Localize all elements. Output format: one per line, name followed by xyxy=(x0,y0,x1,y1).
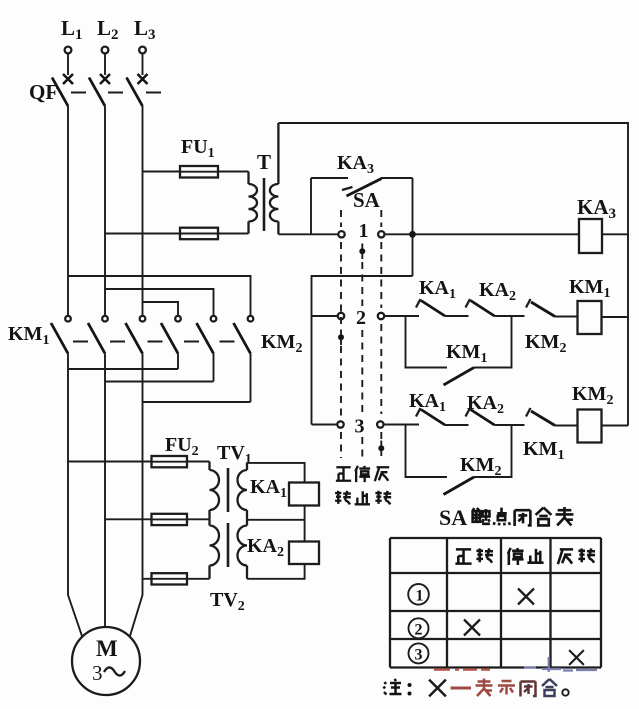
coil KA3 xyxy=(579,219,628,253)
wire phase L1 vertical xyxy=(67,106,69,316)
table row label circled 2 xyxy=(409,618,429,638)
transformer T primary xyxy=(249,172,258,234)
transformer TV1 secondary xyxy=(238,463,248,520)
contact KM2 selfhold branch xyxy=(406,425,512,495)
table row label circled 1 xyxy=(408,584,429,605)
annotation blue dashes xyxy=(524,657,597,672)
svg-text:2: 2 xyxy=(415,622,423,639)
svg-text:1: 1 xyxy=(359,220,369,242)
coil KA2 xyxy=(289,542,319,565)
wire motor feed W xyxy=(130,402,143,638)
wire top rail xyxy=(278,123,628,426)
wire motor feed U xyxy=(68,369,83,638)
wire KA1 loop top xyxy=(247,463,305,483)
contact KM2 interlock row2 xyxy=(526,299,578,317)
breaker QF xyxy=(29,78,161,107)
node L2 xyxy=(97,16,119,84)
wire crossover L3 to KM2 xyxy=(143,302,179,316)
fuse FU1 lower xyxy=(105,228,249,240)
wire KA1 loop bottom xyxy=(247,506,305,542)
wire phase L2 vertical xyxy=(104,106,106,316)
fuse FU2 c xyxy=(143,573,210,584)
wire SA feed rail xyxy=(312,276,413,425)
table header fan-zhuan reverse xyxy=(558,548,595,564)
table mark X reverse row3 xyxy=(569,650,584,665)
fuse FU2 b xyxy=(105,514,210,525)
switch SA dashed line left xyxy=(340,210,342,458)
switch SA position dot 3 xyxy=(378,441,384,457)
wire row1 xyxy=(278,233,338,235)
transformer TV1 core xyxy=(227,468,230,512)
table mark X stop row1 xyxy=(518,589,534,605)
wire KM outputs merge U xyxy=(68,354,178,370)
svg-text:QF: QF xyxy=(29,80,58,104)
svg-text:3: 3 xyxy=(415,647,423,664)
svg-text:M: M xyxy=(96,636,118,661)
coil KA1 xyxy=(289,483,319,506)
fuse FU2 a xyxy=(68,456,210,467)
contactor KM1 main contacts xyxy=(51,316,145,354)
switch SA dashed line centre xyxy=(361,262,363,458)
label SA positions zhuan-zhi-zhuan xyxy=(335,491,391,505)
svg-text:SA: SA xyxy=(439,505,467,530)
node L1 xyxy=(61,16,83,84)
label SA positions zheng-ting-fan xyxy=(336,466,389,482)
transformer T secondary xyxy=(270,123,279,234)
coil KM1 xyxy=(578,301,629,334)
wire crossover L1 to KM2 xyxy=(68,276,251,316)
contact KM1 interlock row3 xyxy=(526,408,578,426)
svg-text:3: 3 xyxy=(355,416,365,438)
svg-text:3: 3 xyxy=(92,661,103,685)
table mark X forward row2 xyxy=(464,620,480,636)
transformer T core xyxy=(263,178,266,231)
switch SA contact 1 xyxy=(338,220,384,242)
svg-text:2: 2 xyxy=(356,307,366,329)
table header zheng-zhuan forward xyxy=(455,548,493,563)
transformer TV2 core xyxy=(227,523,230,567)
wire crossover L2 to KM2 xyxy=(105,289,214,316)
transformer TV2 secondary xyxy=(238,520,248,579)
contactor KM2 main contacts xyxy=(161,316,253,354)
switch SA contact 3 xyxy=(337,416,383,438)
note zhu colon X dash bi-shi-bi-he xyxy=(384,679,569,697)
switch SA position dot 1 xyxy=(359,244,365,260)
svg-text:SA: SA xyxy=(353,188,381,212)
contact KA1 row3 xyxy=(416,408,469,425)
node L3 xyxy=(134,16,156,84)
transformer TV2 primary xyxy=(210,519,220,579)
wire phase L3 vertical xyxy=(142,106,144,316)
wire row2 xyxy=(384,315,419,317)
table grid xyxy=(390,538,601,668)
wire row3 xyxy=(384,424,420,426)
switch SA contact 2 xyxy=(338,307,384,329)
motor M xyxy=(72,627,140,695)
contact KA2 row3 xyxy=(466,408,525,425)
table row label circled 3 xyxy=(409,643,429,663)
fuse FU1 upper xyxy=(143,166,249,178)
contact KA1 row2 xyxy=(416,299,469,316)
node junction row1 xyxy=(409,231,416,238)
wire KM outputs merge W xyxy=(143,354,251,403)
annotation red dashes xyxy=(434,668,490,671)
contact KA3 bypass xyxy=(311,178,413,276)
table header ting-zhi stop xyxy=(508,548,544,565)
wire KM outputs merge V xyxy=(105,354,214,382)
wire row1 output xyxy=(385,233,580,235)
transformer TV1 primary xyxy=(210,462,220,520)
svg-text:T: T xyxy=(257,150,271,174)
contact KM1 selfhold branch xyxy=(406,316,512,385)
contactor linkage dashes xyxy=(73,341,235,343)
switch SA dashed line right xyxy=(380,210,382,440)
coil KM2 xyxy=(578,410,629,443)
wire motor feed V xyxy=(104,382,106,628)
contact KA2 row2 xyxy=(466,299,525,316)
table title SA chu-dian-bi-he-biao xyxy=(439,505,573,530)
svg-text:1: 1 xyxy=(416,588,424,605)
wire KA2 loop bottom xyxy=(247,564,305,579)
switch SA position dot 2 xyxy=(338,330,344,346)
